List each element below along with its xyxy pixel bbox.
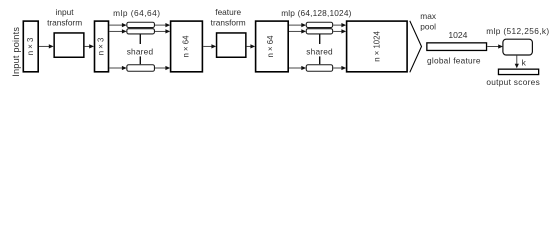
symbol: max pool gather chevron — [410, 21, 422, 73]
wire: n x 64 -> mlp2 row 2 — [289, 29, 306, 33]
svg-text:transform: transform — [47, 17, 82, 27]
box: mlp1 shared layer row n — [127, 65, 155, 72]
svg-text:pool: pool — [420, 21, 436, 31]
box: n x 1024 — [347, 21, 408, 72]
wire: mlp1 vertical dots line (upper segment) — [139, 35, 141, 45]
svg-text:1024: 1024 — [448, 30, 467, 40]
box: n x 3 (after input transform) — [95, 21, 109, 72]
svg-text:n × 64: n × 64 — [266, 35, 275, 58]
box: mlp1 shared layer row 1 — [127, 22, 155, 27]
wire: mlp2 row 1 -> n x 1024 — [333, 23, 346, 27]
svg-text:global feature: global feature — [427, 55, 481, 65]
box: mlp1 shared layer row 2 — [127, 29, 155, 34]
svg-text:shared: shared — [306, 47, 333, 57]
svg-text:shared: shared — [127, 47, 154, 57]
box: mlp2 shared layer row n — [306, 65, 332, 72]
svg-text:transform: transform — [211, 17, 246, 27]
box: mlp2 shared layer row 2 — [306, 29, 332, 34]
svg-text:Input points: Input points — [11, 27, 21, 77]
wire: n x 3 -> mlp1 row 1 — [109, 23, 126, 27]
box: input transform T-net — [54, 33, 84, 57]
wire: mlp1 row n -> n x 64 — [155, 66, 170, 70]
wire: n x 64 -> feature transform — [203, 44, 216, 48]
box: feature transform T-net — [217, 33, 246, 57]
wire: feature transform -> n x 64 — [247, 44, 256, 48]
wire: n x 64 -> mlp2 row 1 — [289, 23, 306, 27]
box: mlp2 shared layer row 1 — [306, 22, 332, 27]
svg-text:output scores: output scores — [486, 77, 540, 87]
box: n x 64 (first) — [171, 21, 203, 72]
svg-text:n × 1024: n × 1024 — [373, 31, 382, 62]
wire: mlp2 vertical dots line (upper segment) — [319, 35, 321, 45]
svg-text:mlp (64,128,1024): mlp (64,128,1024) — [281, 8, 351, 18]
svg-text:max: max — [420, 11, 437, 21]
wire: n x 64 -> mlp2 row n — [289, 66, 306, 70]
box: global feature vector 1024 — [427, 43, 487, 51]
box: n x 64 (after feature transform) — [256, 21, 289, 72]
wire: mlp2 vertical dots line (lower segment) — [319, 56, 321, 64]
svg-text:n × 3: n × 3 — [26, 38, 35, 56]
wire: global feature -> mlp3 — [487, 44, 503, 48]
wire: mlp1 row 2 -> n x 64 — [155, 29, 170, 33]
wire: mlp1 row 1 -> n x 64 — [155, 23, 170, 27]
wire: mlp2 row 2 -> n x 1024 — [333, 29, 346, 33]
box: input points n x 3 — [23, 21, 38, 72]
wire: input points -> input transform — [39, 44, 54, 48]
svg-text:k: k — [522, 58, 527, 68]
svg-text:n × 64: n × 64 — [182, 35, 191, 58]
svg-text:feature: feature — [215, 7, 241, 17]
box: mlp (512,256,k) classifier — [503, 39, 533, 55]
svg-text:mlp (64,64): mlp (64,64) — [113, 8, 160, 18]
svg-text:n × 3: n × 3 — [96, 38, 105, 56]
wire: mlp2 row n -> n x 1024 — [333, 66, 346, 70]
wire: mlp3 -> output scores — [515, 56, 519, 69]
box: output scores k — [498, 69, 538, 74]
wire: n x 3 -> mlp1 row n — [109, 66, 126, 70]
diagram: PointNet classification network — [0, 0, 550, 92]
svg-text:mlp (512,256,k): mlp (512,256,k) — [486, 26, 549, 36]
wire: n x 3 -> mlp1 row 2 — [109, 29, 126, 33]
wire: mlp1 vertical dots line (lower segment) — [139, 56, 141, 64]
wire: input transform -> n x 3 — [85, 44, 94, 48]
svg-text:input: input — [56, 7, 75, 17]
